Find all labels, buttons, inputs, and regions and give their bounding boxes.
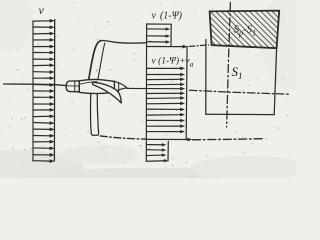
propeller tail cone bbox=[115, 81, 127, 92]
svg-text:v: v bbox=[39, 3, 45, 17]
propeller hub nose cap bbox=[66, 81, 79, 92]
svg-text:v (1-Ψ): v (1-Ψ) bbox=[152, 11, 183, 22]
wire: lower slipstream boundary dash-dot bbox=[100, 136, 146, 139]
S1 rectangle bottom edge bbox=[206, 113, 274, 115]
S1 rectangle right edge bbox=[274, 48, 276, 114]
wire: horizontal shaft axis line (left solid portion) bbox=[4, 84, 67, 86]
propeller hub body bbox=[79, 79, 114, 93]
hub tail joint ring bbox=[114, 81, 116, 92]
wide section arrows v(1-psi)+va bbox=[147, 67, 185, 71]
wire: shaft axis arrow through middle profile bbox=[127, 87, 185, 91]
node: middle velocity profile left edge bbox=[145, 24, 147, 161]
middle profile upper narrow right edge bbox=[170, 24, 172, 46]
hub internal line bbox=[80, 82, 97, 85]
wide section top arrow at slipstream boundary bbox=[147, 45, 188, 49]
middle profile lower narrow right edge bbox=[167, 141, 169, 161]
svg-text:S1: S1 bbox=[232, 64, 243, 81]
paper tone blotches bbox=[0, 0, 320, 190]
middle profile bottom edge with arrow bbox=[146, 159, 168, 162]
hub nose joint ring bbox=[74, 81, 76, 92]
hatched area Sp minus S1 bbox=[210, 11, 280, 49]
propeller upper blade leading edge bbox=[89, 41, 102, 81]
wire: shaft axis hub-to-profile segment bbox=[115, 87, 129, 90]
wire: upper slipstream boundary dash-dot segment bbox=[189, 45, 208, 47]
middle profile top edge (v(1-psi) section) bbox=[147, 23, 172, 25]
lower narrow section arrows bbox=[147, 143, 167, 146]
node: left velocity profile rectangle v bbox=[32, 21, 34, 161]
S1 rectangle left edge bbox=[205, 40, 207, 115]
wire: shaft axis dash-dot right portion through S1 bbox=[190, 90, 289, 94]
wire: axis visible through nose cap bbox=[67, 85, 79, 87]
propeller upper blade tip top edge merging into slipstream boundary bbox=[101, 40, 146, 43]
propeller edge-on dark blade bbox=[92, 82, 121, 103]
propeller lower blade bbox=[91, 93, 99, 135]
tail cone ring bbox=[118, 83, 120, 91]
wire: shaft axis through hub region bbox=[66, 85, 80, 88]
upper narrow section arrows v(1-psi) bbox=[147, 27, 170, 30]
middle profile wide right edge bbox=[185, 46, 188, 138]
hub body joint ring bbox=[78, 81, 80, 93]
propeller upper blade inner thickness line bbox=[98, 43, 105, 80]
wire: vertical center dash-dot line through Sp/S1 bbox=[227, 3, 231, 128]
wire: lower boundary arrow through profile bbox=[147, 138, 193, 142]
paper speckle noise bbox=[0, 0, 292, 179]
